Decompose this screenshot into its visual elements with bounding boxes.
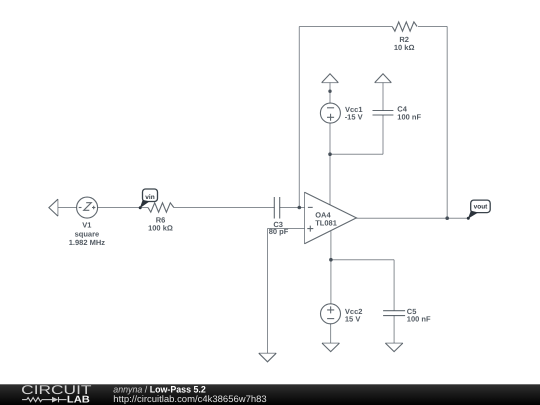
- voltage source Vcc1: [320, 103, 362, 123]
- svg-text:V1: V1: [82, 221, 91, 230]
- node at inverting input junction: [298, 206, 302, 210]
- wire branch to C5: [331, 259, 394, 261]
- wire C3 to op-amp inverting input: [280, 207, 305, 209]
- svg-text:1.982 MHz: 1.982 MHz: [69, 238, 106, 247]
- svg-text:100 nF: 100 nF: [397, 113, 421, 122]
- svg-text:15 V: 15 V: [345, 315, 360, 324]
- svg-text:LAB: LAB: [67, 395, 90, 405]
- svg-text:10 kΩ: 10 kΩ: [394, 43, 415, 52]
- wire C4 bottom lead: [382, 115, 384, 154]
- wire terminal to V1: [58, 207, 77, 209]
- wire V1 to R6: [98, 207, 148, 209]
- ground below noninverting input: [259, 353, 276, 362]
- CircuitLab logo wordmark: [21, 383, 92, 405]
- op-amp OA4: [305, 192, 357, 244]
- wire op-amp output: [356, 217, 468, 219]
- svg-text:100 kΩ: 100 kΩ: [148, 224, 173, 233]
- resistor R2: [392, 22, 417, 52]
- resistor R6: [148, 203, 174, 233]
- CircuitLab logo schematic squiggle: [22, 397, 66, 403]
- wire C5 top lead: [393, 260, 395, 311]
- node between VCC symbol and Vcc1: [328, 90, 331, 93]
- svg-text:100 nF: 100 nF: [407, 315, 431, 324]
- svg-text:vin: vin: [145, 194, 154, 201]
- input terminal arrow: [49, 199, 58, 216]
- VCC symbol above Vcc1: [322, 74, 339, 83]
- wire R6 to C3: [174, 207, 274, 209]
- wire feedback left vertical: [298, 27, 300, 208]
- wire top right: [418, 26, 447, 28]
- node at feedback junction on output: [445, 216, 449, 220]
- capacitor C5: [383, 307, 431, 324]
- wire noninverting input vertical down: [267, 229, 269, 354]
- wire branch to C4: [330, 153, 383, 155]
- VCC symbol above C4: [375, 74, 392, 83]
- wire Vcc1 to op-amp V+ pin: [329, 123, 331, 205]
- svg-text:vout: vout: [474, 203, 489, 210]
- svg-text:-15 V: -15 V: [345, 113, 363, 122]
- svg-text:http://circuitlab.com/c4k38656: http://circuitlab.com/c4k38656w7h83: [113, 393, 266, 404]
- voltage source Vcc2: [321, 304, 363, 324]
- wire top left: [299, 26, 392, 28]
- capacitor C3: [269, 197, 289, 236]
- ground below C5: [385, 343, 402, 352]
- capacitor C4: [373, 105, 422, 122]
- wire C5 bottom lead: [393, 316, 395, 344]
- node at C5 branch: [329, 258, 333, 262]
- net flag vout: [467, 200, 490, 220]
- wire op-amp noninverting input horizontal: [268, 228, 305, 230]
- wire feedback right vertical: [446, 27, 448, 219]
- wire op-amp V- pin down: [330, 231, 332, 304]
- svg-text:TL081: TL081: [315, 219, 337, 228]
- voltage source V1: [69, 197, 106, 247]
- node at C4 branch: [328, 152, 332, 156]
- wire VCC symbol to Vcc1: [329, 83, 331, 104]
- wire C4 top lead: [382, 83, 384, 111]
- wire Vcc2 to ground: [330, 324, 332, 343]
- net flag vin: [139, 189, 158, 209]
- ground below Vcc2: [322, 343, 339, 352]
